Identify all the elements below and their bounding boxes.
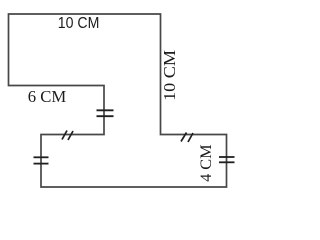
double tick mark on lower-left vertical segment x=41 xyxy=(34,157,49,163)
svg-text:10 CM: 10 CM xyxy=(58,15,100,32)
double slash tick on right step horizontal segment xyxy=(181,133,193,143)
svg-text:4 CM: 4 CM xyxy=(198,144,215,182)
polygon outline of rectilinear figure xyxy=(9,14,227,187)
double slash tick on left step horizontal segment xyxy=(62,131,73,141)
svg-text:10 CM: 10 CM xyxy=(160,50,179,101)
double tick mark on inner vertical segment x=104 xyxy=(97,110,114,116)
svg-text:6 CM: 6 CM xyxy=(28,87,66,106)
double tick mark on 4 CM right vertical segment xyxy=(219,157,235,162)
